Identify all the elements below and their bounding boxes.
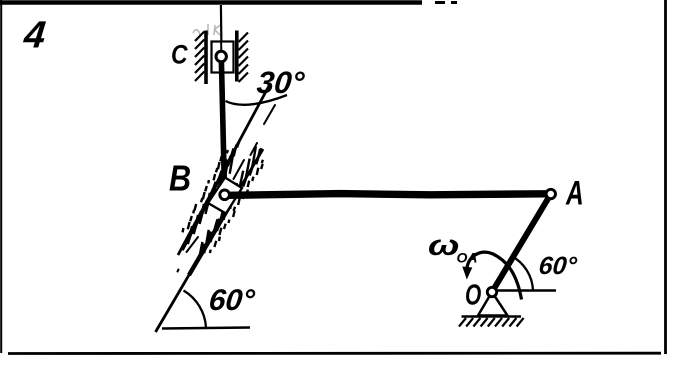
rotation arrow omega_OA (467, 252, 522, 299)
hatching right wall C (239, 33, 248, 83)
pin A (546, 189, 555, 198)
vertical guide line above C (220, 5, 223, 52)
horizontal reference line at 60 deg vertex (162, 328, 250, 329)
inclined guide wall right (lower, through 60 deg angle) (156, 149, 264, 332)
guide wall left at C (204, 31, 208, 85)
svg-text:C: C (171, 40, 188, 70)
hatching left wall C (195, 32, 204, 82)
guide wall right at C (235, 31, 239, 82)
hatching right inclined wall (199, 146, 263, 260)
svg-text:60°: 60° (207, 284, 257, 317)
slot centreline (dash-dot) (178, 105, 276, 272)
pin O (487, 287, 496, 296)
border frame top (0, 0, 422, 5)
link BA (horizontal bar) (228, 194, 546, 196)
guide line inside slider C (220, 43, 222, 53)
link OA (492, 194, 551, 292)
svg-text:30°: 30° (255, 65, 306, 100)
link CB (221, 57, 224, 195)
svg-text:OA: OA (457, 250, 478, 266)
ground hatching at O (459, 318, 524, 327)
svg-text:4: 4 (21, 15, 48, 57)
slider block C (212, 42, 234, 73)
angle arc 60 deg bottom (184, 291, 207, 328)
border frame bottom (8, 352, 661, 355)
horizontal reference line at O (495, 289, 556, 292)
slider block B (208, 178, 242, 214)
label omega_OA (428, 230, 477, 266)
svg-text:O: O (465, 279, 482, 311)
border frame right (664, 0, 667, 354)
inclined guide wall left (upper, through 30 deg angle) (178, 83, 271, 255)
angle arc 60 deg at O (511, 256, 533, 291)
pin C (216, 51, 226, 61)
svg-text:ω: ω (428, 230, 459, 262)
hatching left inclined wall (183, 141, 240, 244)
svg-text:60°: 60° (537, 252, 579, 280)
svg-text:B: B (169, 159, 191, 199)
svg-text:A: A (565, 175, 584, 213)
angle arc 30 deg (226, 95, 288, 105)
ground base line at O (462, 315, 522, 318)
faint scan marks (193, 24, 220, 35)
border frame left (0, 0, 2, 353)
pin B (220, 190, 230, 200)
support triangle at O (478, 292, 508, 316)
